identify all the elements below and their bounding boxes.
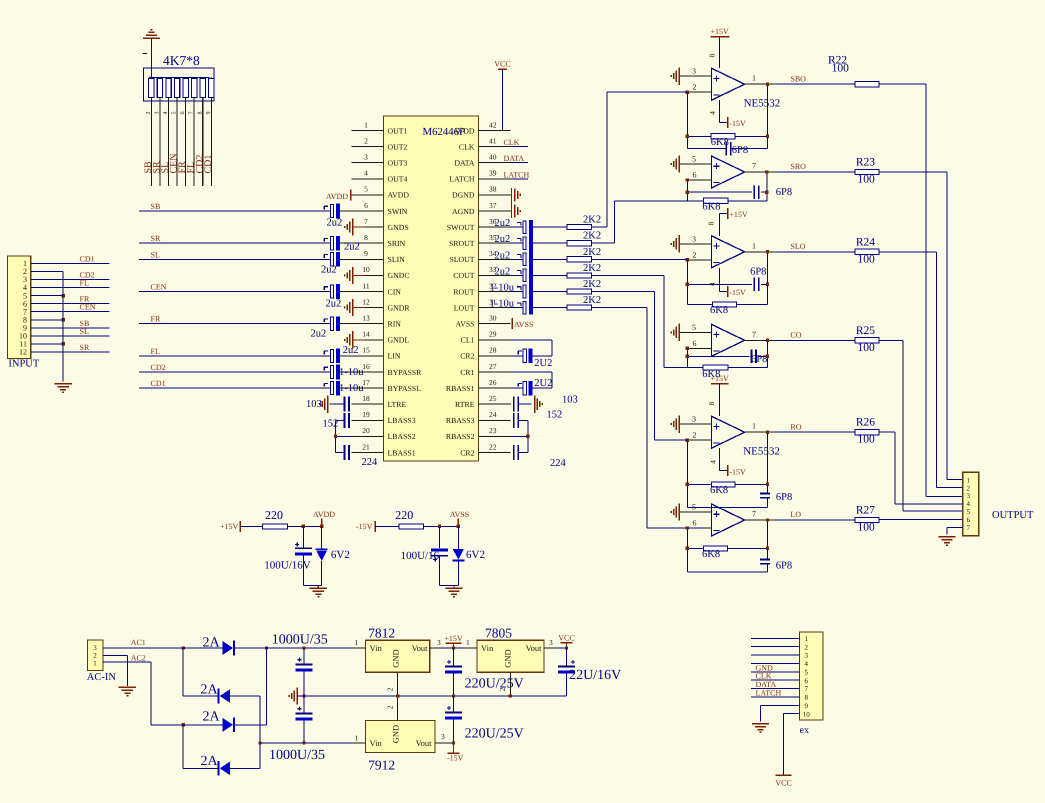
svg-text:+15V: +15V — [729, 210, 748, 219]
svg-text:6P8: 6P8 — [751, 354, 767, 365]
svg-text:+15V: +15V — [710, 27, 729, 36]
svg-text:COUT: COUT — [453, 271, 474, 280]
svg-text:Vin: Vin — [481, 643, 494, 653]
svg-text:LATCH: LATCH — [449, 175, 474, 184]
svg-text:5: 5 — [364, 185, 368, 194]
svg-text:+15V: +15V — [220, 522, 239, 531]
svg-text:2: 2 — [804, 643, 808, 651]
svg-text:2u2: 2u2 — [344, 242, 360, 253]
svg-text:2K2: 2K2 — [583, 279, 601, 290]
svg-text:DATA: DATA — [504, 154, 525, 163]
svg-text:5: 5 — [804, 668, 808, 676]
svg-text:100: 100 — [858, 253, 876, 265]
svg-text:7: 7 — [752, 330, 756, 339]
svg-text:2K2: 2K2 — [583, 247, 601, 258]
svg-text:RTRE: RTRE — [455, 400, 475, 409]
svg-text:CLK: CLK — [504, 138, 520, 147]
svg-text:2u2: 2u2 — [495, 250, 511, 261]
svg-text:SLOUT: SLOUT — [449, 255, 474, 264]
svg-text:2U2: 2U2 — [534, 378, 552, 389]
svg-text:CD1: CD1 — [151, 379, 166, 388]
svg-text:6: 6 — [693, 519, 697, 528]
svg-text:30: 30 — [489, 314, 497, 323]
svg-text:14: 14 — [362, 330, 370, 339]
svg-text:7: 7 — [804, 685, 808, 693]
svg-text:9: 9 — [364, 249, 368, 258]
svg-text:27: 27 — [489, 362, 497, 371]
svg-text:LATCH: LATCH — [504, 170, 530, 179]
svg-text:LBASS2: LBASS2 — [388, 432, 416, 441]
svg-text:AVDD: AVDD — [388, 191, 410, 200]
svg-text:8: 8 — [364, 233, 368, 242]
svg-text:7: 7 — [364, 217, 368, 226]
svg-text:RBASS3: RBASS3 — [446, 416, 475, 425]
svg-text:21: 21 — [362, 442, 370, 451]
svg-text:VCC: VCC — [494, 60, 510, 69]
svg-text:8: 8 — [707, 401, 716, 405]
svg-text:2K2: 2K2 — [583, 215, 601, 226]
svg-text:GND: GND — [391, 725, 401, 743]
svg-text:+15V: +15V — [444, 634, 463, 643]
svg-text:Vout: Vout — [416, 738, 433, 748]
svg-text:7912: 7912 — [368, 758, 395, 773]
svg-text:LIN: LIN — [388, 352, 401, 361]
svg-text:100: 100 — [858, 174, 876, 186]
svg-text:CO: CO — [790, 331, 801, 340]
svg-text:AC1: AC1 — [131, 638, 146, 647]
svg-text:20: 20 — [362, 426, 370, 435]
svg-text:GNDC: GNDC — [388, 271, 410, 280]
svg-text:RO: RO — [790, 422, 801, 431]
svg-text:LO: LO — [790, 510, 801, 519]
svg-text:ex: ex — [800, 725, 809, 736]
svg-text:AC2: AC2 — [131, 654, 146, 663]
svg-text:1000U/35: 1000U/35 — [272, 633, 328, 648]
svg-text:Vout: Vout — [526, 643, 543, 653]
svg-text:1000U/35: 1000U/35 — [269, 748, 325, 763]
svg-text:CD1: CD1 — [203, 155, 214, 174]
svg-text:1: 1 — [752, 74, 756, 83]
svg-text:10: 10 — [803, 710, 811, 718]
svg-text:NE5532: NE5532 — [743, 446, 780, 458]
svg-text:13: 13 — [362, 314, 370, 323]
svg-text:Vin: Vin — [370, 643, 383, 653]
svg-text:28: 28 — [489, 346, 497, 355]
svg-text:GNDL: GNDL — [388, 336, 410, 345]
svg-text:VCC: VCC — [775, 779, 791, 788]
svg-text:GND: GND — [391, 649, 401, 667]
svg-text:2: 2 — [364, 136, 368, 145]
svg-text:2A: 2A — [201, 683, 219, 698]
svg-text:CD2: CD2 — [151, 363, 166, 372]
svg-text:2K2: 2K2 — [583, 295, 601, 306]
svg-text:-15V: -15V — [729, 467, 746, 476]
svg-text:152: 152 — [323, 419, 339, 430]
svg-text:3: 3 — [437, 638, 441, 647]
svg-text:SROUT: SROUT — [449, 239, 475, 248]
svg-text:220: 220 — [395, 508, 413, 522]
svg-text:R27: R27 — [856, 505, 875, 517]
svg-text:2K2: 2K2 — [583, 231, 601, 242]
svg-text:2: 2 — [386, 705, 395, 709]
svg-text:103: 103 — [306, 399, 322, 410]
svg-text:6: 6 — [693, 171, 697, 180]
svg-text:SR: SR — [151, 234, 161, 243]
svg-text:SL: SL — [151, 250, 160, 259]
svg-text:6K8: 6K8 — [710, 485, 728, 496]
svg-text:2: 2 — [146, 112, 152, 115]
svg-text:GND: GND — [502, 649, 512, 667]
svg-text:1: 1 — [967, 476, 971, 484]
svg-text:CEN: CEN — [80, 303, 96, 312]
svg-text:8: 8 — [707, 221, 716, 225]
svg-text:1: 1 — [364, 120, 368, 129]
svg-text:15: 15 — [362, 346, 370, 355]
svg-text:12: 12 — [19, 348, 27, 357]
svg-text:Vout: Vout — [412, 643, 429, 653]
svg-text:SLIN: SLIN — [388, 255, 406, 264]
svg-text:1: 1 — [804, 635, 808, 643]
svg-text:ROUT: ROUT — [453, 287, 474, 296]
svg-text:1: 1 — [752, 241, 756, 250]
svg-text:8: 8 — [197, 112, 203, 115]
svg-text:6: 6 — [804, 677, 808, 685]
svg-text:220: 220 — [265, 508, 283, 522]
svg-text:RBASS2: RBASS2 — [446, 432, 475, 441]
svg-text:AVSS: AVSS — [450, 510, 469, 519]
svg-text:AGND: AGND — [452, 207, 475, 216]
svg-text:BYPASSL: BYPASSL — [388, 384, 422, 393]
svg-text:2U2: 2U2 — [534, 358, 552, 369]
svg-text:2u2: 2u2 — [321, 265, 337, 276]
svg-text:SB: SB — [151, 202, 161, 211]
svg-text:100U/16: 100U/16 — [401, 550, 440, 562]
svg-text:R23: R23 — [856, 157, 875, 169]
svg-text:103: 103 — [562, 395, 578, 406]
svg-text:2: 2 — [693, 250, 697, 259]
svg-text:6P8: 6P8 — [750, 267, 766, 278]
svg-text:LBASS1: LBASS1 — [388, 448, 416, 457]
svg-text:224: 224 — [362, 457, 379, 468]
svg-text:GNDR: GNDR — [388, 303, 411, 312]
svg-text:Vin: Vin — [370, 738, 383, 748]
svg-text:-15V: -15V — [729, 288, 746, 297]
svg-text:CEN: CEN — [151, 283, 167, 292]
svg-text:12: 12 — [362, 297, 370, 306]
svg-text:2: 2 — [967, 484, 971, 492]
svg-text:39: 39 — [489, 169, 497, 178]
svg-text:100: 100 — [832, 63, 850, 75]
svg-text:4: 4 — [967, 500, 971, 508]
svg-text:AVDD: AVDD — [313, 510, 335, 519]
svg-text:1: 1 — [355, 638, 359, 647]
svg-text:37: 37 — [489, 201, 497, 210]
svg-text:7: 7 — [967, 524, 971, 532]
svg-text:7: 7 — [752, 162, 756, 171]
svg-text:2K2: 2K2 — [583, 263, 601, 274]
svg-text:FL: FL — [80, 279, 89, 288]
svg-text:3: 3 — [93, 644, 97, 652]
svg-text:3: 3 — [692, 415, 696, 424]
svg-text:1: 1 — [752, 422, 756, 431]
svg-text:SWOUT: SWOUT — [447, 223, 475, 232]
svg-text:1: 1 — [355, 733, 359, 742]
svg-text:6P8: 6P8 — [776, 560, 792, 571]
svg-text:3: 3 — [549, 638, 553, 647]
svg-text:2u2: 2u2 — [343, 345, 359, 356]
svg-text:CD1: CD1 — [80, 255, 95, 264]
svg-text:220U/25V: 220U/25V — [465, 677, 524, 692]
svg-text:2u2: 2u2 — [495, 218, 511, 229]
svg-text:AC-IN: AC-IN — [87, 672, 117, 683]
svg-text:DGND: DGND — [452, 191, 475, 200]
svg-text:152: 152 — [547, 410, 563, 421]
svg-text:-15V: -15V — [729, 119, 746, 128]
svg-text:2u2: 2u2 — [495, 266, 511, 277]
svg-text:OUT2: OUT2 — [388, 142, 408, 151]
svg-text:OUT4: OUT4 — [388, 175, 408, 184]
svg-text:2A: 2A — [201, 754, 219, 769]
svg-text:DATA: DATA — [454, 159, 475, 168]
svg-text:AVSS: AVSS — [456, 320, 475, 329]
svg-text:7812: 7812 — [368, 626, 395, 641]
svg-text:2A: 2A — [203, 710, 221, 725]
svg-text:SLO: SLO — [790, 242, 805, 251]
svg-text:5: 5 — [172, 112, 178, 115]
svg-text:2u2: 2u2 — [326, 299, 342, 310]
svg-text:LBASS3: LBASS3 — [388, 416, 416, 425]
svg-text:LOUT: LOUT — [454, 303, 475, 312]
svg-text:2u2: 2u2 — [311, 329, 327, 340]
svg-text:4: 4 — [364, 169, 368, 178]
svg-text:224: 224 — [550, 458, 567, 469]
svg-text:CR2: CR2 — [460, 352, 474, 361]
svg-text:NE5532: NE5532 — [744, 98, 781, 110]
svg-text:AVDD: AVDD — [453, 126, 475, 135]
svg-text:41: 41 — [489, 136, 497, 145]
svg-text:SRIN: SRIN — [388, 239, 406, 248]
svg-text:22: 22 — [489, 442, 497, 451]
svg-text:5: 5 — [692, 323, 696, 332]
svg-text:100U/16V: 100U/16V — [264, 560, 311, 572]
svg-text:23: 23 — [489, 426, 497, 435]
svg-text:3: 3 — [692, 234, 696, 243]
svg-text:R26: R26 — [856, 417, 875, 429]
svg-text:19: 19 — [362, 410, 370, 419]
svg-text:42: 42 — [489, 120, 497, 129]
svg-text:1-10u: 1-10u — [490, 299, 515, 310]
svg-text:2: 2 — [386, 687, 395, 691]
svg-text:6P8: 6P8 — [776, 187, 792, 198]
svg-text:6: 6 — [364, 201, 368, 210]
svg-text:6K8: 6K8 — [702, 369, 720, 380]
svg-text:R25: R25 — [856, 325, 875, 337]
svg-text:1-10u: 1-10u — [339, 383, 364, 394]
svg-text:LATCH: LATCH — [756, 688, 782, 697]
svg-text:6: 6 — [967, 516, 971, 524]
svg-text:11: 11 — [362, 281, 369, 290]
svg-text:100: 100 — [858, 342, 876, 354]
svg-text:4: 4 — [163, 112, 169, 115]
svg-text:6V2: 6V2 — [466, 549, 485, 561]
svg-text:OUT1: OUT1 — [388, 126, 408, 135]
svg-text:2: 2 — [498, 687, 507, 691]
svg-text:6K8: 6K8 — [702, 549, 720, 560]
svg-text:1: 1 — [466, 638, 470, 647]
svg-text:LTRE: LTRE — [388, 400, 407, 409]
svg-text:FR: FR — [151, 315, 161, 324]
svg-text:7805: 7805 — [485, 626, 512, 641]
svg-text:OUTPUT: OUTPUT — [992, 510, 1034, 521]
svg-text:SWIN: SWIN — [388, 207, 408, 216]
svg-text:4K7*8: 4K7*8 — [163, 53, 200, 68]
svg-text:9: 9 — [206, 112, 212, 115]
svg-text:SBO: SBO — [790, 74, 806, 83]
svg-text:10: 10 — [362, 265, 370, 274]
svg-text:9: 9 — [804, 702, 808, 710]
svg-text:CLK: CLK — [459, 142, 475, 151]
svg-text:25: 25 — [489, 394, 497, 403]
svg-text:3: 3 — [441, 732, 445, 741]
svg-text:5: 5 — [967, 508, 971, 516]
svg-text:24: 24 — [489, 410, 497, 419]
svg-text:-15V: -15V — [356, 522, 373, 531]
svg-text:4: 4 — [804, 660, 808, 668]
svg-text:220U/25V: 220U/25V — [465, 727, 524, 742]
svg-text:BYPASSR: BYPASSR — [388, 368, 423, 377]
svg-text:6K8: 6K8 — [702, 201, 720, 212]
svg-text:22U/16V: 22U/16V — [569, 668, 621, 683]
svg-text:4: 4 — [708, 111, 717, 115]
svg-text:VCC: VCC — [558, 633, 574, 642]
svg-text:2A: 2A — [203, 636, 221, 651]
svg-text:AVSS: AVSS — [514, 320, 533, 329]
svg-text:SR: SR — [80, 343, 90, 352]
svg-text:29: 29 — [489, 330, 497, 339]
svg-text:100: 100 — [858, 434, 876, 446]
svg-text:2u2: 2u2 — [327, 218, 343, 229]
svg-text:RBASS1: RBASS1 — [446, 384, 475, 393]
svg-text:3: 3 — [804, 652, 808, 660]
svg-text:CIN: CIN — [388, 287, 402, 296]
svg-text:SL: SL — [80, 327, 89, 336]
svg-text:CR1: CR1 — [460, 368, 474, 377]
svg-text:2: 2 — [93, 652, 97, 660]
svg-text:GNDS: GNDS — [388, 223, 409, 232]
svg-text:3: 3 — [967, 492, 971, 500]
svg-text:7: 7 — [752, 510, 756, 519]
svg-text:RIN: RIN — [388, 320, 402, 329]
svg-text:3: 3 — [692, 67, 696, 76]
svg-text:4: 4 — [709, 460, 718, 464]
svg-text:40: 40 — [489, 153, 497, 162]
svg-text:6K8: 6K8 — [710, 305, 728, 316]
svg-text:2: 2 — [693, 431, 697, 440]
svg-text:FL: FL — [151, 347, 160, 356]
svg-text:6: 6 — [180, 112, 186, 115]
svg-text:2: 2 — [693, 83, 697, 92]
svg-text:2u2: 2u2 — [495, 234, 511, 245]
svg-text:5: 5 — [692, 155, 696, 164]
svg-text:OUT3: OUT3 — [388, 159, 408, 168]
svg-text:1: 1 — [93, 660, 97, 668]
svg-text:3: 3 — [364, 153, 368, 162]
svg-text:1-10u: 1-10u — [339, 367, 364, 378]
svg-text:38: 38 — [489, 185, 497, 194]
svg-text:CL1: CL1 — [461, 336, 475, 345]
svg-text:26: 26 — [489, 378, 497, 387]
svg-text:-15V: -15V — [447, 754, 464, 763]
svg-text:SRO: SRO — [790, 162, 806, 171]
svg-text:6V2: 6V2 — [331, 549, 350, 561]
svg-text:CR2: CR2 — [460, 448, 474, 457]
svg-text:18: 18 — [362, 394, 370, 403]
svg-text:6: 6 — [693, 339, 697, 348]
svg-text:R24: R24 — [856, 236, 875, 248]
svg-text:6P8: 6P8 — [776, 492, 792, 503]
svg-text:8: 8 — [708, 53, 717, 57]
svg-text:100: 100 — [858, 522, 876, 534]
svg-text:5: 5 — [692, 503, 696, 512]
svg-text:INPUT: INPUT — [8, 359, 40, 370]
svg-text:8: 8 — [804, 694, 808, 702]
svg-text:7: 7 — [189, 112, 195, 115]
svg-text:3: 3 — [154, 112, 160, 115]
svg-text:1-10u: 1-10u — [490, 283, 515, 294]
svg-text:6P8: 6P8 — [732, 145, 748, 156]
svg-text:AVDD: AVDD — [326, 192, 348, 201]
